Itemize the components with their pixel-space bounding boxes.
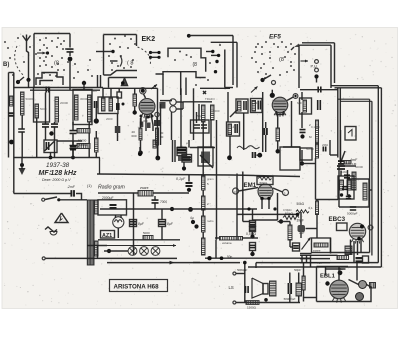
svg-text:50n: 50n bbox=[227, 255, 233, 259]
svg-text:5000: 5000 bbox=[213, 109, 220, 113]
svg-text:zware: zware bbox=[140, 186, 149, 190]
svg-text:LS: LS bbox=[229, 285, 234, 290]
svg-text:radio: radio bbox=[207, 219, 214, 223]
svg-text:volume: volume bbox=[222, 241, 232, 245]
svg-text:50μF: 50μF bbox=[294, 268, 301, 272]
svg-text:0,1μF: 0,1μF bbox=[176, 177, 186, 181]
svg-text:39μF: 39μF bbox=[297, 219, 304, 223]
svg-text:(8: (8 bbox=[54, 61, 59, 67]
svg-text:EBC3: EBC3 bbox=[329, 216, 346, 223]
svg-text:Deze: 2000 Ω p.V: Deze: 2000 Ω p.V bbox=[42, 178, 71, 182]
svg-text:EF5: EF5 bbox=[269, 34, 281, 41]
svg-text:5000: 5000 bbox=[143, 231, 150, 235]
svg-text:500: 500 bbox=[92, 89, 97, 93]
svg-text:0,1: 0,1 bbox=[309, 206, 314, 210]
svg-text:gram: gram bbox=[207, 177, 214, 181]
svg-text:50000: 50000 bbox=[355, 165, 363, 169]
svg-text:5000: 5000 bbox=[40, 107, 47, 111]
svg-text:128: 128 bbox=[254, 101, 259, 105]
svg-text:0,5MΩ: 0,5MΩ bbox=[246, 232, 257, 236]
svg-text:300: 300 bbox=[143, 119, 148, 123]
svg-text:8μF: 8μF bbox=[138, 222, 145, 226]
svg-text:50p: 50p bbox=[197, 114, 202, 118]
svg-text:2000: 2000 bbox=[106, 117, 113, 121]
svg-text:TRAFO: TRAFO bbox=[205, 97, 216, 101]
svg-text:5000: 5000 bbox=[345, 249, 352, 253]
svg-text:50000: 50000 bbox=[306, 147, 314, 151]
svg-text:000: 000 bbox=[132, 134, 137, 138]
svg-text:B): B) bbox=[3, 62, 9, 68]
svg-text:5000μF: 5000μF bbox=[237, 268, 247, 272]
svg-text:8μF: 8μF bbox=[167, 222, 174, 226]
svg-text:75n: 75n bbox=[317, 261, 322, 265]
svg-text:1937-38: 1937-38 bbox=[46, 162, 70, 169]
svg-text:1μF: 1μF bbox=[299, 231, 305, 235]
svg-text:(8: (8 bbox=[279, 57, 284, 63]
svg-text:(1): (1) bbox=[87, 184, 92, 188]
svg-text:(600Ω): (600Ω) bbox=[78, 143, 88, 147]
svg-text:2000μF: 2000μF bbox=[102, 196, 114, 200]
svg-text:AZ1: AZ1 bbox=[102, 233, 112, 239]
svg-text:EBL1: EBL1 bbox=[320, 274, 336, 280]
svg-text:( 8: ( 8 bbox=[127, 61, 133, 67]
svg-text:20000: 20000 bbox=[60, 101, 68, 105]
svg-text:4μ: 4μ bbox=[190, 216, 194, 220]
svg-text:30000: 30000 bbox=[80, 97, 88, 101]
svg-text:1500Ω: 1500Ω bbox=[247, 306, 257, 310]
svg-text:MF∶128 kHz: MF∶128 kHz bbox=[39, 170, 78, 177]
svg-text:P.U: P.U bbox=[311, 64, 317, 69]
svg-text:0,1MΩ: 0,1MΩ bbox=[311, 125, 320, 129]
svg-text:zware: zware bbox=[313, 249, 321, 253]
svg-text:2MΩ: 2MΩ bbox=[322, 143, 329, 147]
svg-text:6μF: 6μF bbox=[297, 101, 302, 105]
svg-text:1MΩ: 1MΩ bbox=[341, 170, 348, 174]
svg-text:μ: μ bbox=[186, 141, 188, 145]
svg-text:ARISTONA H68: ARISTONA H68 bbox=[114, 283, 160, 290]
svg-text:50000: 50000 bbox=[26, 97, 34, 101]
svg-text:00: 00 bbox=[160, 135, 164, 139]
svg-text:5000pF: 5000pF bbox=[347, 212, 358, 216]
